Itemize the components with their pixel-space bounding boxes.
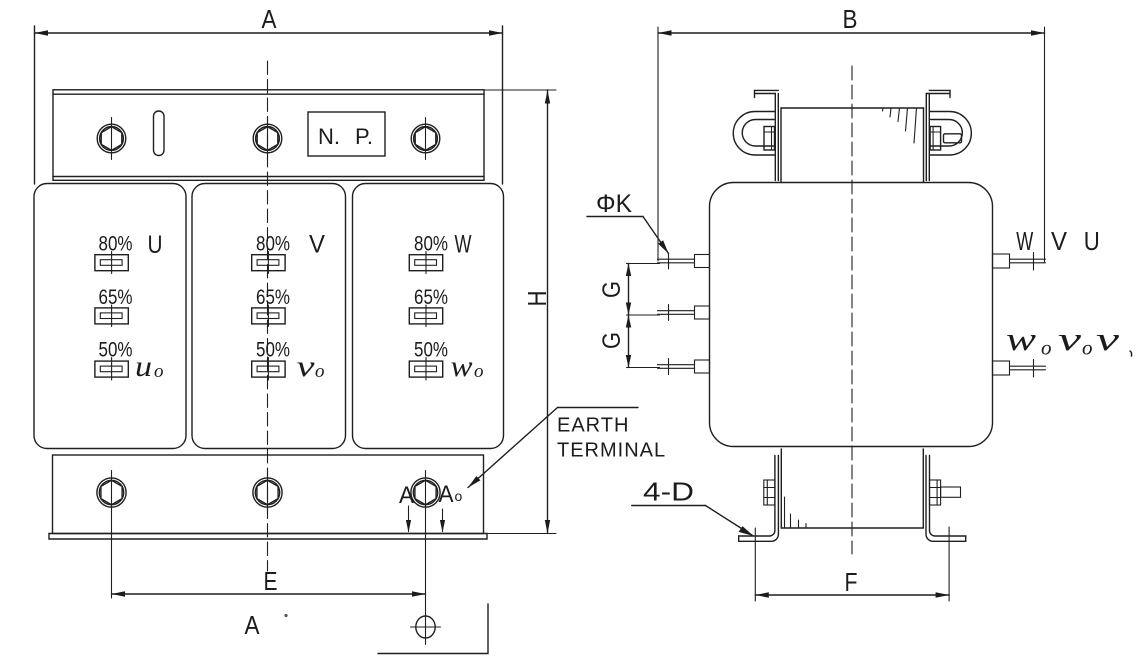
bottom bracket left [739,456,779,542]
svg-text:o: o [315,361,325,382]
earth terminal callout [468,408,638,488]
dimension E [112,591,426,596]
tap symbol U 80% [95,252,128,274]
svg-text:H: H [522,291,552,307]
svg-text:o: o [154,361,164,382]
svg-text:N.: N. [318,124,340,149]
neutral label u0 [135,350,164,383]
small dot artifact [284,614,287,617]
svg-text:u: u [135,350,152,383]
bottom bolt right (earth terminal) [411,478,440,507]
tap symbol U 50% [95,358,128,381]
svg-text:4-D: 4-D [643,477,694,507]
bolt axis middle [267,471,269,515]
dimension H [484,90,557,534]
svg-text:v: v [297,350,316,383]
dimension A top line [35,30,503,35]
bolt axis right extended down [425,471,427,645]
top cover bolt left [97,118,126,160]
dimension F extension left [754,528,756,601]
dimension A extension right [502,26,504,184]
left pin row 3 [658,359,710,375]
tap symbol W 50% [409,358,442,381]
svg-text:A: A [399,482,414,509]
svg-text:80%: 80% [99,233,133,256]
phi K callout [587,190,669,254]
bottom bracket right [926,456,966,542]
svg-text:50%: 50% [256,339,290,362]
neutral label w0 [451,350,484,383]
earth terminal text [557,415,666,462]
bottom core block [781,449,923,528]
top bracket right [926,90,950,180]
tap symbol V 80% [252,252,285,274]
lifting eyebolt left [733,112,775,156]
svg-text:w: w [451,350,473,383]
lifting eyebolt right [930,112,972,156]
svg-text:G: G [598,281,626,298]
tap symbol W 65% [409,305,442,327]
svg-text:o: o [1041,336,1052,360]
tap symbol V 50% [252,358,285,381]
small arrow A0 [440,509,445,533]
dimension G lower [626,315,631,368]
tap symbol W 80% [409,252,442,274]
partial glyph at right edge [1130,351,1132,356]
bottom bolt left [764,480,775,505]
coil block W [353,184,504,449]
svg-text:B: B [843,4,858,34]
dimension G upper [626,264,631,316]
svg-text:U: U [1084,226,1100,256]
dimension F extension right [948,527,950,601]
svg-text:w: w [1006,322,1036,358]
top bracket left [755,90,779,180]
bottom bolt middle [253,478,282,507]
terminal labels W V U [1016,226,1099,256]
nameplate N.P. box [308,112,385,156]
coil block U [34,184,186,449]
svg-text:65%: 65% [99,286,133,309]
svg-text:65%: 65% [414,286,448,309]
side center dashed line [851,66,853,554]
dimension B [658,30,1045,35]
corner bracket bottom right [378,604,488,654]
svg-text:V: V [309,231,325,259]
svg-text:V: V [1051,226,1068,256]
svg-text:80%: 80% [256,233,290,256]
E extension / bolt axis left [111,471,113,599]
svg-text:A: A [439,481,454,508]
4-D callout [632,477,754,537]
coil block V [192,184,346,449]
earth marker circle bottom [411,616,441,638]
core hatch marks top [883,108,917,143]
svg-text:EARTH: EARTH [557,415,629,437]
dimension B extension left [657,27,659,261]
svg-text:50%: 50% [414,339,448,362]
bottom mounting plate [49,455,487,539]
svg-text:G: G [598,332,626,349]
label A0 near earth bolt [439,481,463,508]
svg-text:W: W [1016,226,1033,256]
dimension G extension lines [627,264,660,368]
left pin row 1 [658,253,710,269]
side body [710,183,993,447]
svg-text:50%: 50% [99,339,133,362]
svg-text:P.: P. [355,124,373,149]
svg-text:v: v [1058,322,1082,358]
dimension F [755,592,949,597]
tap symbol U 65% [95,305,128,327]
terminal labels w0 v0 v [1006,322,1120,360]
bottom bolt right with shank [930,480,961,505]
neutral label v0 [297,350,325,383]
svg-text:v: v [1096,322,1120,358]
svg-text:80%: 80% [414,233,448,256]
core hatch marks bottom [785,497,807,528]
dimension A extension left [34,26,36,184]
svg-text:E: E [264,566,278,596]
top core block [781,108,924,182]
small arrow A [406,506,411,533]
front center dashed line [267,61,269,571]
svg-text:A: A [262,4,278,34]
svg-text:A: A [245,610,261,640]
tap labels 65% row [99,286,449,309]
tap labels 80% row [99,233,449,256]
dimension B extension right [1044,27,1046,262]
svg-text:o: o [1082,336,1093,360]
svg-text:ΦK: ΦK [596,190,632,218]
top cover bolt middle [253,118,282,160]
top cover slot [154,111,165,156]
tap labels 50% row [99,339,449,362]
svg-text:W: W [455,231,472,259]
left pin row 2 [658,305,710,321]
right pin row 1 [993,253,1046,271]
svg-text:U: U [148,231,163,259]
right pin row 2 [993,360,1046,378]
svg-text:o: o [474,361,484,382]
svg-text:TERMINAL: TERMINAL [557,440,666,462]
svg-text:65%: 65% [256,286,290,309]
bottom bolt left [97,478,126,507]
top cover bolt right [411,118,440,160]
top cover panel [53,90,484,181]
svg-text:o: o [455,488,463,504]
tap symbol V 65% [252,305,285,327]
svg-text:F: F [845,567,858,597]
